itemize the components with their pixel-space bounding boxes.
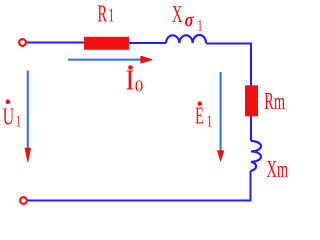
- label E1 phasor: [195, 101, 212, 131]
- label Xsigma1: [172, 1, 203, 33]
- inductor Xm coil: [251, 141, 262, 171]
- label Rm: [264, 88, 285, 115]
- arrow U1 voltage direction: [25, 71, 30, 162]
- svg-text:Xm: Xm: [267, 156, 289, 183]
- wire from Xm coil to bottom-right corner: [250, 171, 252, 201]
- svg-text:E: E: [195, 103, 204, 130]
- svg-text:1: 1: [207, 112, 213, 131]
- wire bottom segment: [27, 200, 252, 202]
- wire from Rm to Xm coil: [250, 116, 252, 141]
- svg-text:σ: σ: [185, 9, 195, 32]
- svg-text:0: 0: [135, 77, 144, 96]
- terminal top-left: [19, 39, 26, 46]
- svg-text:1: 1: [16, 113, 21, 131]
- arrow I0 current direction: [68, 56, 152, 63]
- svg-text:I: I: [125, 66, 134, 97]
- label I0 phasor: [125, 65, 143, 97]
- svg-text:R: R: [98, 1, 108, 28]
- wire top segment from terminal to R1: [26, 42, 85, 44]
- svg-text:1: 1: [197, 16, 202, 34]
- terminal bottom-left: [20, 197, 27, 204]
- svg-text:X: X: [172, 1, 182, 28]
- label U1 phasor: [3, 99, 21, 131]
- inductor Xsigma1 coil: [166, 35, 206, 43]
- resistor R1: [84, 37, 129, 50]
- svg-text:Rm: Rm: [264, 88, 285, 115]
- resistor Rm: [245, 85, 258, 116]
- svg-text:U: U: [3, 105, 15, 131]
- label R1: [98, 1, 115, 28]
- label Xm: [267, 156, 289, 183]
- svg-text:1: 1: [108, 4, 114, 27]
- wire from coil to top-right corner and down to Rm: [206, 44, 251, 86]
- wire between R1 and Xsigma1 coil: [128, 42, 166, 44]
- arrow E1 emf direction: [218, 72, 224, 161]
